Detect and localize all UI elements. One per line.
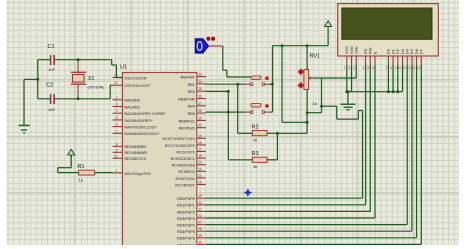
svg-text:23: 23 [198, 161, 202, 165]
svg-text:2: 2 [348, 66, 350, 70]
svg-text:2: 2 [116, 96, 118, 100]
svg-text:4: 4 [363, 66, 365, 70]
svg-text:RA1/AN1: RA1/AN1 [125, 105, 140, 109]
svg-text:8: 8 [390, 66, 392, 70]
svg-text:RB4: RB4 [188, 105, 195, 109]
svg-text:24: 24 [198, 167, 202, 171]
svg-text:E: E [372, 51, 377, 54]
svg-text:19: 19 [198, 194, 202, 198]
svg-text:C1: C1 [48, 44, 55, 50]
svg-text:34: 34 [198, 80, 202, 84]
svg-text:5: 5 [367, 66, 369, 70]
svg-text:29: 29 [198, 234, 202, 238]
svg-text:RA2/AN2/VREF-/CVREF: RA2/AN2/VREF-/CVREF [125, 112, 167, 116]
svg-text:RC1/T1OSI/CCP2: RC1/T1OSI/CCP2 [165, 144, 195, 148]
svg-text:35: 35 [198, 87, 202, 91]
svg-text:14: 14 [114, 81, 118, 85]
svg-text:21: 21 [198, 207, 202, 211]
svg-text:28: 28 [198, 227, 202, 231]
svg-text:8: 8 [116, 142, 118, 146]
svg-text:RB0/INT: RB0/INT [181, 76, 196, 80]
svg-text:X1: X1 [88, 76, 94, 82]
svg-text:RD6/PSP6: RD6/PSP6 [177, 237, 195, 241]
svg-text:RD4/PSP4: RD4/PSP4 [177, 224, 195, 228]
svg-text:10: 10 [114, 154, 118, 158]
svg-text:RC2/CCP1: RC2/CCP1 [177, 150, 195, 154]
svg-text:RB6/PGC: RB6/PGC [179, 119, 196, 123]
svg-text:7: 7 [116, 129, 118, 133]
svg-text:RC4/SDI/SDA: RC4/SDI/SDA [172, 164, 196, 168]
svg-text:1k: 1k [313, 101, 317, 106]
svg-text:20: 20 [198, 201, 202, 205]
svg-text:9: 9 [116, 148, 118, 152]
svg-text:4: 4 [116, 109, 118, 113]
svg-text:22: 22 [198, 214, 202, 218]
svg-text:RD3/PSP3: RD3/PSP3 [177, 217, 195, 221]
svg-text:36: 36 [198, 95, 202, 99]
svg-text:RA0/AN0: RA0/AN0 [125, 99, 140, 103]
svg-text:16: 16 [198, 141, 202, 145]
svg-text:1: 1 [344, 66, 346, 70]
svg-text:18: 18 [198, 154, 202, 158]
svg-text:39: 39 [198, 116, 202, 120]
svg-text:RD0/PSP0: RD0/PSP0 [177, 197, 195, 201]
svg-text:7: 7 [385, 66, 387, 70]
svg-text:RE1/AN6/WR: RE1/AN6/WR [125, 151, 148, 155]
svg-text:RE2/AN7/CS: RE2/AN7/CS [125, 157, 147, 161]
svg-text:6: 6 [116, 123, 118, 127]
svg-text:OSC1/CLKIN: OSC1/CLKIN [125, 76, 147, 80]
svg-text:MCLR/Vpp/THV: MCLR/Vpp/THV [125, 172, 152, 176]
svg-text:3: 3 [116, 103, 118, 107]
svg-text:R3: R3 [252, 151, 259, 157]
svg-text:RC6/TX/CK: RC6/TX/CK [176, 177, 196, 181]
svg-text:CRYSTAL: CRYSTAL [88, 85, 105, 89]
svg-text:1nF: 1nF [48, 67, 55, 72]
svg-text:6: 6 [372, 66, 374, 70]
svg-text:27: 27 [198, 221, 202, 225]
svg-text:1nF: 1nF [48, 107, 55, 112]
svg-text:R2: R2 [252, 125, 259, 131]
svg-text:1: 1 [116, 169, 118, 173]
svg-text:RV1: RV1 [310, 54, 321, 60]
svg-text:1k: 1k [79, 178, 83, 183]
svg-text:RB5: RB5 [188, 112, 195, 116]
svg-text:RC0/T1OSO/T1CKI: RC0/T1OSO/T1CKI [162, 137, 194, 141]
svg-text:37: 37 [198, 102, 202, 106]
svg-text:VEE: VEE [354, 46, 359, 54]
svg-text:1k: 1k [253, 164, 257, 169]
svg-text:RB1: RB1 [188, 83, 195, 87]
svg-text:RA3/AN3/VREF+: RA3/AN3/VREF+ [125, 119, 153, 123]
svg-text:33: 33 [198, 73, 202, 77]
svg-text:R1: R1 [78, 164, 85, 170]
svg-text:30: 30 [198, 240, 202, 244]
svg-text:17: 17 [198, 148, 202, 152]
svg-text:RD5/PSP5: RD5/PSP5 [177, 230, 195, 234]
svg-text:D7: D7 [419, 48, 424, 54]
svg-text:40: 40 [198, 124, 202, 128]
svg-text:26: 26 [198, 181, 202, 185]
svg-text:U1: U1 [120, 65, 127, 71]
svg-text:RA4/T0CKI/C1OUT: RA4/T0CKI/C1OUT [125, 126, 158, 130]
svg-text:RC7/RX/DT: RC7/RX/DT [175, 183, 195, 187]
svg-text:C2: C2 [46, 82, 53, 88]
svg-text:RA5/AN4/SS/C2OUT: RA5/AN4/SS/C2OUT [125, 132, 161, 136]
svg-text:9: 9 [395, 66, 397, 70]
svg-text:RB2: RB2 [188, 90, 195, 94]
svg-text:1k: 1k [253, 138, 257, 143]
svg-text:3: 3 [353, 66, 355, 70]
svg-text:RC3/SCK/SCL: RC3/SCK/SCL [171, 157, 195, 161]
svg-text:RD2/PSP2: RD2/PSP2 [177, 210, 195, 214]
svg-text:11: 11 [403, 66, 407, 70]
svg-text:RE0/AN5/RD: RE0/AN5/RD [125, 145, 147, 149]
svg-text:38: 38 [198, 109, 202, 113]
svg-text:15: 15 [198, 134, 202, 138]
svg-text:RD1/PSP1: RD1/PSP1 [177, 204, 195, 208]
svg-text:25: 25 [198, 174, 202, 178]
svg-text:RB3/PGM: RB3/PGM [178, 97, 195, 101]
svg-text:RC5/SDO: RC5/SDO [178, 170, 195, 174]
svg-text:OSC2/CLKOUT: OSC2/CLKOUT [125, 84, 152, 88]
svg-text:5: 5 [116, 116, 118, 120]
svg-text:RB7/PGD: RB7/PGD [179, 127, 196, 131]
